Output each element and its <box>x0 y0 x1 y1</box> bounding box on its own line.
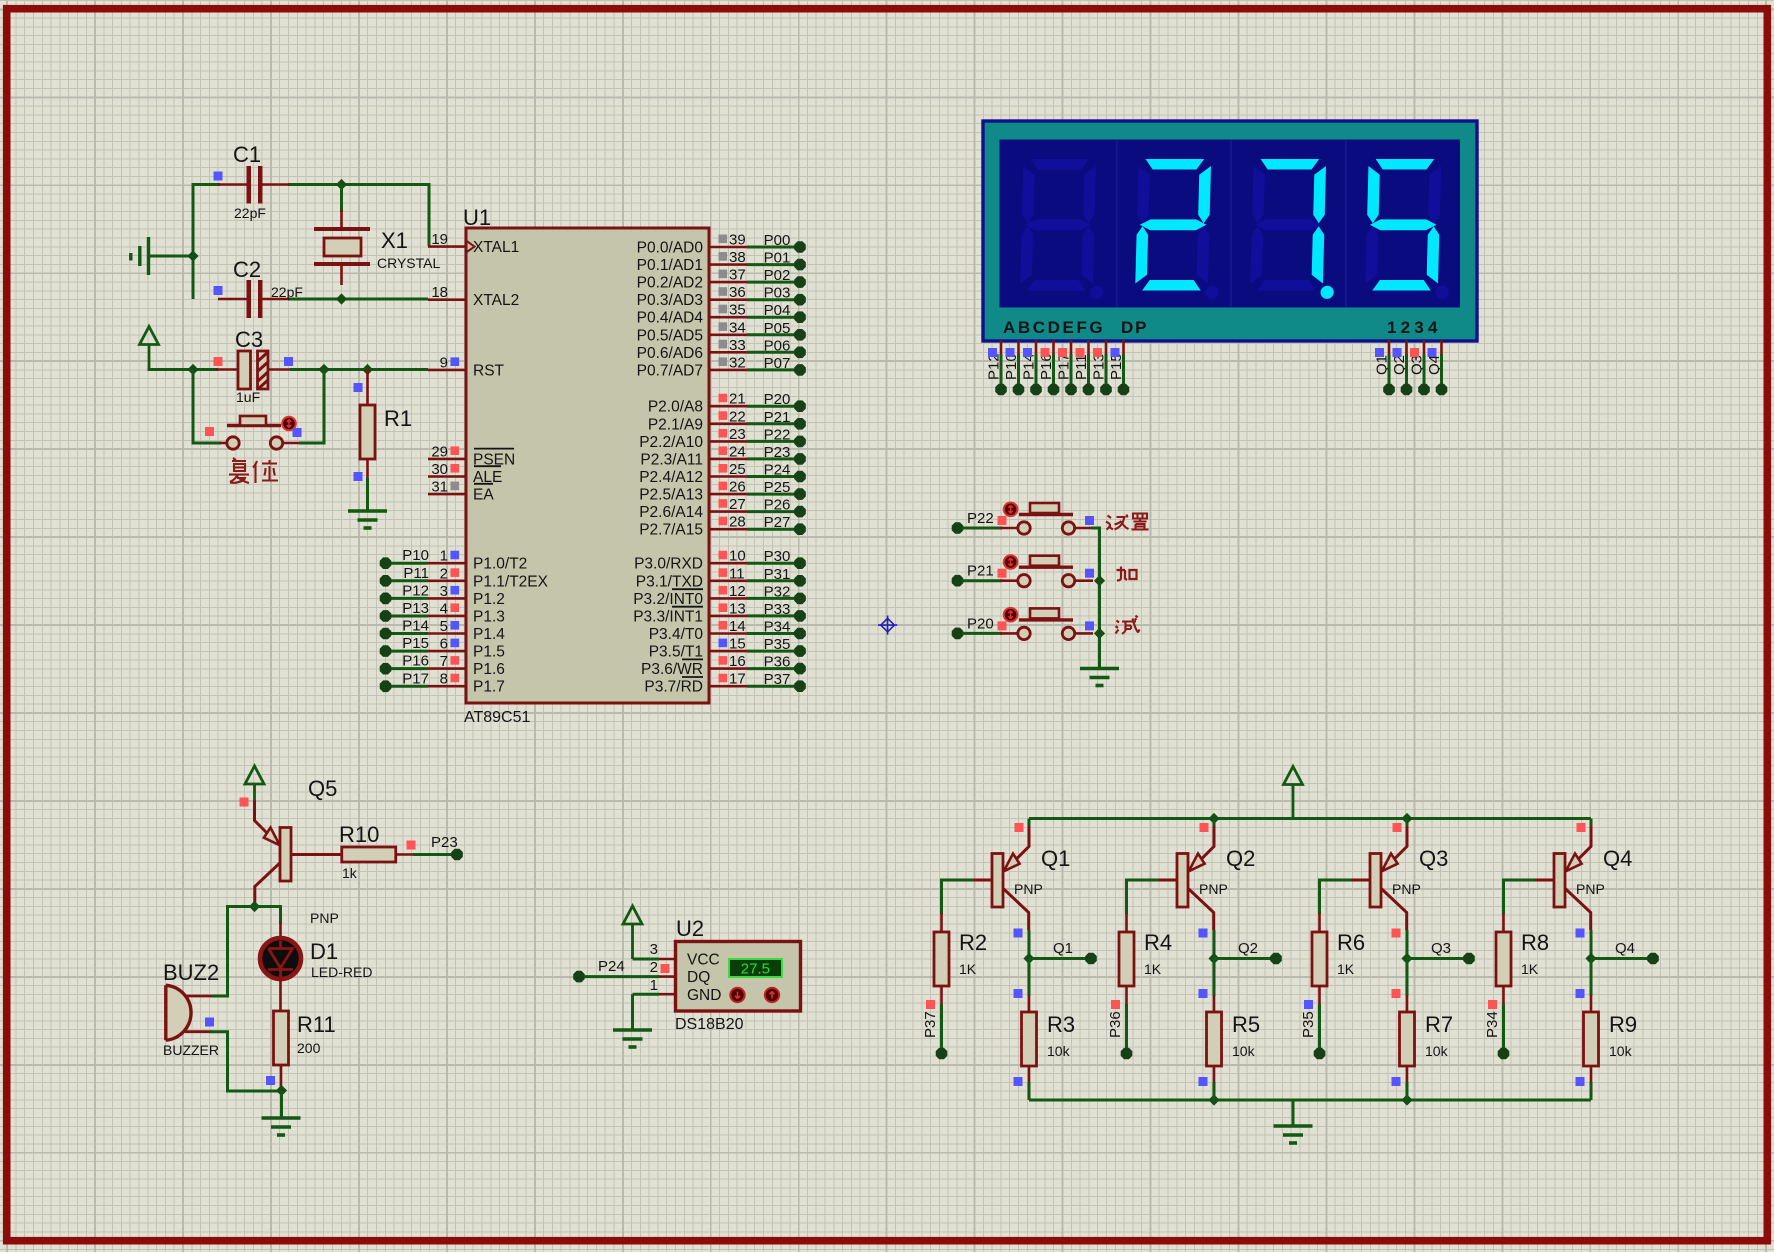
U1 pin 39 <box>709 232 747 249</box>
svg-text:Q3: Q3 <box>1419 846 1448 871</box>
resistor R9 <box>1590 995 1593 1013</box>
svg-text:P05: P05 <box>764 320 791 337</box>
junction node gnd rail Q2 <box>1208 1094 1219 1105</box>
svg-text:37: 37 <box>729 267 746 284</box>
terminal/wire net P22 <box>952 510 1002 534</box>
wire/terminal net P22 <box>747 426 806 447</box>
svg-text:P37: P37 <box>922 1011 939 1038</box>
svg-text:11: 11 <box>729 565 745 582</box>
wire/terminal net P13 <box>380 600 429 622</box>
wire to ground (D1/BUZ2) <box>280 1091 283 1118</box>
wire/terminal net P35 <box>747 636 806 657</box>
svg-text:P3.4/T0: P3.4/T0 <box>649 626 704 643</box>
indicator square R5 top <box>1199 989 1208 998</box>
svg-text:PNP: PNP <box>1392 881 1421 897</box>
indicator square P22 right <box>1085 516 1094 525</box>
resistor R2 <box>940 913 943 933</box>
U1 pin 18 <box>428 284 466 301</box>
svg-text:P35: P35 <box>764 636 791 653</box>
svg-text:P3.5/T1: P3.5/T1 <box>649 644 703 661</box>
resistor R1 <box>366 370 369 406</box>
wire base Q2 to R <box>1127 880 1159 914</box>
svg-text:4: 4 <box>440 600 448 617</box>
resistor R7 <box>1406 995 1409 1013</box>
svg-text:P0.1/AD1: P0.1/AD1 <box>637 257 703 274</box>
svg-text:9: 9 <box>440 354 448 371</box>
wire/terminal net P33 <box>747 601 806 622</box>
svg-text:P3.0/RXD: P3.0/RXD <box>634 556 703 573</box>
transistor Q1 (PNP) <box>972 826 1030 930</box>
wire/terminal net P06 <box>747 337 806 358</box>
indicator square R9 top <box>1576 989 1585 998</box>
svg-text:R11: R11 <box>297 1012 336 1037</box>
U1 pin 11 <box>709 565 747 582</box>
svg-text:P25: P25 <box>764 479 791 496</box>
wire R5 to gnd rail <box>1213 1082 1216 1100</box>
svg-text:P06: P06 <box>764 337 791 354</box>
svg-text:P0.6/AD6: P0.6/AD6 <box>637 345 703 362</box>
svg-text:P3.6/WR: P3.6/WR <box>641 661 703 678</box>
U1 pin 8 <box>428 671 466 688</box>
svg-text:1K: 1K <box>1144 961 1162 977</box>
LED D1 (LED-RED) <box>260 922 301 1011</box>
svg-text:7: 7 <box>440 653 448 670</box>
U1 pin 24 <box>709 443 747 460</box>
svg-text:U1: U1 <box>463 205 491 230</box>
svg-text:R4: R4 <box>1144 930 1172 955</box>
junction node LED/buzzer ground <box>276 1085 287 1096</box>
svg-text:1uF: 1uF <box>236 389 260 405</box>
indicator square P20 right <box>1085 621 1094 630</box>
U1 pin 10 <box>709 548 747 565</box>
indicator square P21 right <box>1085 569 1094 578</box>
indicator square Q2 collector <box>1199 929 1208 938</box>
U1 pin 12 <box>709 583 747 600</box>
wire XTAL1 net (C1 right to U1 XTAL1) <box>288 185 429 246</box>
svg-text:XTAL2: XTAL2 <box>473 292 519 309</box>
U1 pin 38 <box>709 249 747 266</box>
svg-text:R3: R3 <box>1047 1012 1075 1037</box>
wire/terminal net P23 <box>747 444 806 465</box>
wire ground to C1/C2 rail <box>150 255 193 258</box>
power VCC arrow (Q5) <box>245 766 264 784</box>
svg-text:31: 31 <box>431 479 448 496</box>
U1 pin 19 <box>428 231 466 248</box>
svg-text:10k: 10k <box>1609 1043 1633 1059</box>
U1 pin 27 <box>709 496 747 513</box>
wire button right riser <box>299 370 324 444</box>
svg-text:P01: P01 <box>764 250 791 267</box>
svg-text:200: 200 <box>297 1040 321 1056</box>
svg-text:R9: R9 <box>1609 1012 1637 1037</box>
svg-text:Q2: Q2 <box>1226 846 1255 871</box>
svg-text:Q5: Q5 <box>308 776 337 801</box>
svg-text:P24: P24 <box>764 462 791 479</box>
wire GND rail (drivers) <box>1029 1099 1591 1102</box>
chip U2 body DS18B20 <box>676 942 801 1012</box>
svg-text:1K: 1K <box>1521 961 1539 977</box>
wire collector Q4 to junction <box>1590 930 1593 959</box>
U1 pin 22 <box>709 408 747 425</box>
transistor Q5 (PNP) <box>255 800 345 906</box>
wire/terminal net P20 <box>747 391 806 412</box>
junction node button row2 <box>1094 575 1105 586</box>
svg-text:DQ: DQ <box>687 969 710 986</box>
wire/terminal net P34 <box>1484 1004 1509 1059</box>
capacitor C2 <box>218 280 290 318</box>
wire/terminal net P25 <box>747 479 806 500</box>
junction node Q1 collector <box>1023 953 1034 964</box>
svg-text:3: 3 <box>440 583 448 600</box>
svg-text:EA: EA <box>473 487 494 504</box>
junction node Q4 collector <box>1585 953 1596 964</box>
wire/terminal net P16 <box>380 653 429 675</box>
U1 pin 25 <box>709 461 747 478</box>
svg-text:RST: RST <box>473 362 505 379</box>
indicator square R11 bottom <box>266 1076 275 1085</box>
wire/terminal net P12 <box>380 582 429 604</box>
indicator square P22 left <box>998 516 1007 525</box>
transistor Q4 (PNP) <box>1534 826 1592 930</box>
indicator square P37 <box>926 1000 935 1009</box>
resistor R3 <box>1028 995 1031 1013</box>
resistor R6 <box>1318 913 1321 933</box>
wire emitter Q1 to VCC rail <box>1028 819 1031 829</box>
svg-text:21: 21 <box>729 391 746 408</box>
display digit pin 4 wire net Q4 <box>1426 340 1447 395</box>
U2 pin 2 DQ <box>650 959 676 977</box>
wire emitter Q3 to VCC rail <box>1406 819 1409 829</box>
wire/terminal net P34 <box>747 619 806 640</box>
display segment pin F wire net P11 <box>1073 340 1094 395</box>
wire C3 left branch down to button <box>193 370 221 444</box>
svg-text:R8: R8 <box>1521 930 1549 955</box>
crystal X1 <box>314 210 370 285</box>
display segment pin D wire net P16 <box>1038 340 1059 395</box>
svg-text:P2.1/A9: P2.1/A9 <box>648 416 703 433</box>
wire Q3 collector to R7 <box>1406 959 1409 997</box>
svg-text:P23: P23 <box>764 444 791 461</box>
display digit 1 (blank) <box>1020 159 1107 299</box>
terminal/wire net P21 <box>952 563 1002 587</box>
display digit pin 3 wire net Q3 <box>1409 340 1430 395</box>
wire/terminal net P14 <box>380 618 429 640</box>
svg-text:38: 38 <box>729 249 746 266</box>
indicator square R5 bottom <box>1199 1077 1208 1086</box>
wire/terminal net P11 <box>380 565 429 587</box>
U1 pin 37 <box>709 267 747 284</box>
indicator square C3 left <box>214 357 223 366</box>
junction node ground rail <box>187 250 198 261</box>
power VCC arrow (U2) <box>623 906 642 924</box>
svg-text:10k: 10k <box>1425 1043 1449 1059</box>
svg-text:10k: 10k <box>1232 1043 1256 1059</box>
svg-text:27: 27 <box>729 496 746 513</box>
svg-text:19: 19 <box>431 231 448 248</box>
svg-text:DS18B20: DS18B20 <box>675 1016 744 1033</box>
svg-text:22pF: 22pF <box>234 205 266 221</box>
wire gnd rail stem <box>1292 1100 1295 1125</box>
resistor R4 <box>1125 913 1128 933</box>
wire/terminal net Q1 <box>1029 940 1097 964</box>
wire emitter Q4 to VCC rail <box>1590 819 1593 829</box>
wire/terminal net P10 <box>380 547 429 569</box>
capacitor C3 (polarized) <box>216 351 292 389</box>
svg-text:13: 13 <box>729 600 746 617</box>
svg-text:39: 39 <box>729 232 746 249</box>
U1 pin 4 <box>428 600 466 617</box>
svg-text:U2: U2 <box>676 916 704 941</box>
svg-text:P15: P15 <box>402 635 429 652</box>
svg-text:P02: P02 <box>764 267 791 284</box>
ground (D1/BUZ2) <box>262 1118 301 1135</box>
svg-text:P1.4: P1.4 <box>473 626 505 643</box>
junction node XTAL1/C1/X1 <box>336 179 347 190</box>
label 复位 (reset) <box>229 458 278 483</box>
buzzer BUZ2 <box>166 985 212 1040</box>
wire/terminal net P01 <box>747 250 806 271</box>
svg-text:23: 23 <box>729 426 746 443</box>
svg-text:P20: P20 <box>967 615 994 632</box>
U1 pin 17 <box>709 671 747 688</box>
U1 pin 16 <box>709 653 747 670</box>
U1 pin 33 <box>709 337 747 354</box>
wire Q5 collector to buzzer <box>212 907 255 997</box>
svg-text:P33: P33 <box>764 601 791 618</box>
ground (U2) <box>613 1030 652 1047</box>
svg-text:10: 10 <box>729 548 746 565</box>
wire/terminal net P17 <box>380 670 429 692</box>
svg-text:P2.6/A14: P2.6/A14 <box>639 504 703 521</box>
display segment pin C wire net P14 <box>1021 340 1042 395</box>
wire/terminal net P00 <box>747 232 806 253</box>
svg-text:1k: 1k <box>342 865 358 881</box>
indicator square Q3 collector <box>1392 929 1401 938</box>
svg-text:PNP: PNP <box>310 910 339 926</box>
U1 pin 6 <box>428 636 466 653</box>
svg-text:1: 1 <box>440 548 448 565</box>
junction node C3 left <box>187 364 198 375</box>
svg-text:R1: R1 <box>384 406 412 431</box>
svg-text:P21: P21 <box>764 409 791 426</box>
indicator square C2 left <box>214 286 223 295</box>
svg-text:P2.2/A10: P2.2/A10 <box>639 434 703 451</box>
svg-text:P3.7/RD: P3.7/RD <box>644 679 703 696</box>
svg-text:P1.5: P1.5 <box>473 644 505 661</box>
wire RST net top <box>148 368 219 371</box>
svg-text:P2.3/A11: P2.3/A11 <box>640 451 703 468</box>
label 减 (decrease) <box>1116 616 1140 634</box>
svg-text:D1: D1 <box>310 939 338 964</box>
wire/terminal net P24 <box>573 958 659 982</box>
indicator square P35 <box>1304 1000 1313 1009</box>
svg-text:C3: C3 <box>235 327 263 352</box>
indicator square Q2 emitter <box>1200 823 1209 832</box>
indicator square Q4 emitter <box>1577 823 1586 832</box>
indicator square R10 right <box>407 841 416 850</box>
svg-text:P1.7: P1.7 <box>473 679 505 696</box>
wire base Q4 to R <box>1504 880 1536 914</box>
svg-text:VCC: VCC <box>687 952 720 969</box>
svg-text:P34: P34 <box>764 619 791 636</box>
U1 pin 30 <box>428 461 466 478</box>
svg-text:10k: 10k <box>1047 1043 1071 1059</box>
svg-text:P10: P10 <box>402 547 429 564</box>
svg-text:17: 17 <box>729 671 746 688</box>
svg-text:P14: P14 <box>402 618 429 635</box>
wire Q4 collector to R9 <box>1590 959 1593 997</box>
display segment pin DP wire net P15 <box>1108 340 1129 395</box>
wire buzzer bottom to ground rail <box>210 1032 282 1091</box>
svg-text:AT89C51: AT89C51 <box>464 709 531 726</box>
svg-text:P20: P20 <box>764 391 791 408</box>
display segment pin G wire net P13 <box>1091 340 1112 395</box>
svg-text:X1: X1 <box>381 228 408 253</box>
svg-text:P0.3/AD3: P0.3/AD3 <box>637 292 703 309</box>
svg-text:PNP: PNP <box>1199 881 1228 897</box>
svg-text:DP: DP <box>1121 318 1148 337</box>
svg-text:P21: P21 <box>967 563 994 580</box>
svg-text:32: 32 <box>729 354 746 371</box>
wire buttons common to ground <box>1091 528 1100 668</box>
svg-text:P31: P31 <box>764 566 791 583</box>
indicator square R7 top <box>1392 989 1401 998</box>
resistor R10 <box>342 847 396 862</box>
wire collector Q1 to junction <box>1028 930 1031 959</box>
svg-text:34: 34 <box>729 319 746 336</box>
indicator square R7 bottom <box>1392 1077 1401 1086</box>
svg-text:24: 24 <box>729 443 746 460</box>
wire Q1 collector to R3 <box>1028 959 1031 997</box>
indicator square R1 bottom <box>354 472 363 481</box>
wire/terminal net P27 <box>747 514 806 535</box>
svg-text:30: 30 <box>431 461 448 478</box>
indicator square R3 top <box>1014 989 1023 998</box>
U1 pin 31 <box>428 479 466 496</box>
svg-text:35: 35 <box>729 302 746 319</box>
svg-text:P22: P22 <box>967 510 994 527</box>
wire base Q3 to R <box>1320 880 1352 914</box>
wire/terminal net P35 <box>1300 1004 1325 1059</box>
wire/terminal net P03 <box>747 285 806 306</box>
svg-text:C1: C1 <box>233 142 261 167</box>
svg-text:16: 16 <box>729 653 746 670</box>
svg-text:P1.2: P1.2 <box>473 591 505 608</box>
svg-text:P1.1/T2EX: P1.1/T2EX <box>473 573 549 590</box>
display digit pin 2 wire net Q2 <box>1391 340 1412 395</box>
resistor R5 <box>1213 995 1216 1013</box>
indicator square C3 right <box>284 357 293 366</box>
svg-text:PNP: PNP <box>1576 881 1605 897</box>
U1 pin 9 <box>428 354 466 371</box>
svg-text:P12: P12 <box>402 582 429 599</box>
U1 pin 5 <box>428 618 466 635</box>
wire R1 to ground <box>366 478 369 510</box>
U1 pin 21 <box>709 391 747 408</box>
wire C1 left rail <box>193 185 220 300</box>
svg-text:R2: R2 <box>959 930 987 955</box>
svg-text:PNP: PNP <box>1014 881 1043 897</box>
svg-text:P32: P32 <box>764 583 791 600</box>
svg-text:P1.6: P1.6 <box>473 661 505 678</box>
resistor R11 <box>274 1011 289 1065</box>
svg-text:1: 1 <box>650 977 658 994</box>
display segment pin A wire net P12 <box>986 340 1007 395</box>
wire XTAL2 net (C2/X1 to U1 XTAL2) <box>288 298 428 301</box>
wire collector Q3 to junction <box>1406 930 1409 959</box>
junction node Q3 collector <box>1401 953 1412 964</box>
indicator square C1 left <box>214 172 223 181</box>
indicator square Q1 collector <box>1014 929 1023 938</box>
indicator square P20 left <box>998 621 1007 630</box>
svg-text:29: 29 <box>431 443 448 460</box>
wire VCC arrow to U2 pin3 <box>633 958 660 961</box>
display digit 4 showing 5 <box>1365 159 1452 299</box>
svg-text:P27: P27 <box>764 514 791 531</box>
ground (drivers) <box>1274 1126 1313 1143</box>
power VCC arrow (drivers) <box>1284 767 1303 785</box>
svg-text:P3.1/TXD: P3.1/TXD <box>636 573 703 590</box>
U1 pin 2 <box>428 565 466 582</box>
svg-text:Q1: Q1 <box>1041 846 1070 871</box>
ground (buttons) <box>1080 669 1119 686</box>
junction node R1 top <box>362 364 373 375</box>
svg-text:2: 2 <box>440 565 448 582</box>
svg-text:6: 6 <box>440 636 448 653</box>
wire X1 top stub <box>340 185 343 213</box>
svg-text:5: 5 <box>440 618 448 635</box>
wire U2 GND to ground <box>633 993 660 996</box>
junction node gnd rail Q3 <box>1401 1094 1412 1105</box>
capacitor C1 <box>218 166 290 204</box>
U1 pin 3 <box>428 583 466 600</box>
svg-text:12: 12 <box>729 583 746 600</box>
junction node XTAL2/C2/X1 <box>336 293 347 304</box>
svg-text:Q2: Q2 <box>1238 940 1258 957</box>
svg-text:Q3: Q3 <box>1431 940 1451 957</box>
U2 pin 3 VCC <box>650 941 676 959</box>
wire collector Q2 to junction <box>1213 930 1216 959</box>
wire/terminal net P02 <box>747 267 806 288</box>
svg-text:P24: P24 <box>598 958 625 975</box>
wire/terminal net P37 <box>747 671 806 692</box>
U1 pin 28 <box>709 514 747 531</box>
wire/terminal net P23 <box>413 834 463 860</box>
svg-text:36: 36 <box>729 284 746 301</box>
wire Q5 collector to LED <box>255 907 281 925</box>
display 7SEG-MPX4 body <box>983 121 1477 341</box>
indicator square button left <box>205 427 214 436</box>
indicator square R3 bottom <box>1014 1077 1023 1086</box>
U1 pin 23 <box>709 426 747 443</box>
origin marker <box>878 616 897 635</box>
wire/terminal net Q2 <box>1214 940 1282 964</box>
label 加 (increase) <box>1117 567 1137 581</box>
svg-text:P2.5/A13: P2.5/A13 <box>639 487 703 504</box>
svg-text:P35: P35 <box>1300 1011 1317 1038</box>
U1 pin 34 <box>709 319 747 336</box>
resistor R8 <box>1502 913 1505 933</box>
push button 减 <box>1000 608 1093 640</box>
indicator square Q4 collector <box>1576 929 1585 938</box>
svg-text:18: 18 <box>431 284 448 301</box>
U1 pin 15 <box>709 636 747 653</box>
transistor Q3 (PNP) <box>1350 826 1408 930</box>
junction node button right riser <box>318 364 329 375</box>
display segment pin E wire net P17 <box>1056 340 1077 395</box>
push button 设置 <box>1000 503 1093 535</box>
svg-text:P0.2/AD2: P0.2/AD2 <box>637 275 703 292</box>
